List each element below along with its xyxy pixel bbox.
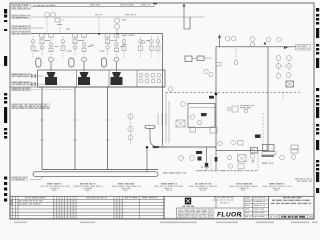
interlock box UZ-01: [286, 81, 294, 87]
control valve CV1: [45, 72, 57, 85]
title divider v252: [251, 196, 253, 218]
node tick top border: [153, 3, 157, 5]
pipe drop train 1: [41, 87, 43, 170]
signal drop x117: [116, 29, 118, 33]
instrument PI-26: [277, 37, 282, 42]
equipment title E4: [155, 183, 183, 190]
tag box: [216, 63, 221, 66]
instrument pump PI-42: [190, 156, 195, 161]
arrowhead x265: [264, 42, 267, 45]
signal stack x130: [130, 113, 132, 145]
pipe collector: [42, 169, 158, 171]
line label N7: [12, 87, 31, 90]
line label N4: [12, 31, 31, 34]
pipe lower header: [11, 86, 166, 88]
compressor enclosure box: [216, 47, 268, 151]
instrument pm2: [228, 164, 232, 168]
off-page connector box right: [296, 45, 311, 51]
equipment label box: [262, 152, 277, 157]
gate valve V6: [31, 82, 36, 86]
drum tag label: [163, 172, 168, 173]
pipe main header line D: [31, 33, 163, 35]
skid bay divider 2: [108, 71, 110, 88]
instrument PI-24: [250, 42, 254, 46]
skid bay divider 3: [136, 71, 138, 88]
actuator stem CV1: [49, 57, 54, 71]
instrument LI-11: [128, 114, 133, 119]
drop x206 with valve: [205, 147, 208, 170]
pipe between exchangers: [192, 57, 212, 60]
tag text train 3: [100, 40, 125, 52]
pipe label on line A: [34, 5, 36, 6]
aux box K-02: [190, 127, 196, 132]
title divider v176: [176, 208, 178, 219]
stacked boxes right: [291, 145, 298, 153]
junction nub x117: [116, 33, 118, 35]
exchanger box E-01: [185, 56, 192, 62]
instrument TI-32: [209, 72, 213, 76]
equipment note: [262, 163, 267, 164]
drop to drum x147: [146, 148, 148, 172]
instrument PI-01: [45, 12, 50, 17]
spec break box: [263, 145, 275, 152]
signal drop x263 dashed: [262, 113, 264, 145]
controller box PC-01: [55, 18, 60, 22]
spare bay instruments: [139, 73, 163, 83]
rev table header text: [25, 197, 158, 198]
pipe bottom run: [152, 146, 216, 148]
note label N9: [12, 177, 28, 180]
registration strip right: [316, 8, 319, 193]
pump cluster box: [238, 155, 247, 162]
instrument LI-12: [128, 126, 133, 131]
tag text train 2: [67, 40, 92, 52]
flange tick train 3: [106, 120, 110, 140]
arrow up x219: [218, 35, 221, 48]
line label N5: [12, 74, 31, 77]
valve dark x211: [209, 96, 214, 99]
drain risers: [158, 113, 166, 125]
equipment title E6: [230, 183, 258, 190]
pipe from label N7 dashed: [31, 89, 75, 91]
actuator stem CV3: [114, 57, 119, 71]
drop x216 lower: [215, 151, 218, 172]
dark valve x257: [255, 135, 261, 138]
signal drop x258: [257, 150, 259, 171]
note right REF: [295, 178, 312, 181]
line label N6: [12, 82, 31, 85]
drawing title text: [271, 197, 311, 204]
riser to off-sheet with arrow: [183, 4, 186, 18]
title divider v216: [215, 196, 217, 208]
instrument TI-01: [114, 18, 119, 23]
pipe line B: [31, 16, 204, 18]
strainer F2: [69, 58, 74, 67]
logo caption: [183, 206, 186, 207]
equipment title E5: [189, 183, 218, 190]
equipment title E3: [112, 183, 141, 190]
flow arrow bottom: [196, 151, 202, 154]
package unit boundary: [188, 104, 215, 128]
pump suction pot: [145, 126, 155, 129]
pipe line C: [31, 27, 44, 29]
line label N3: [12, 26, 31, 29]
skid boundary box: [38, 70, 166, 87]
flange tick train 2: [73, 120, 77, 140]
instrument LG-52: [280, 155, 285, 160]
tag text train 1: [34, 40, 59, 52]
equipment title E1: [41, 183, 70, 190]
title divider v268: [268, 196, 270, 218]
instrument pkg 2: [197, 120, 201, 124]
skid bay divider 1: [76, 71, 78, 88]
print stamp footnotes: [14, 222, 318, 224]
instrument stack PDI: [276, 56, 291, 79]
fan box K-01: [176, 120, 185, 127]
line label N2: [12, 15, 31, 18]
aux box K-03: [210, 127, 217, 133]
instrument FI-21: [168, 87, 173, 92]
valve dark bottom: [198, 157, 202, 161]
drain line from N9: [30, 176, 44, 179]
instrument TI-33: [181, 102, 186, 107]
valve manifold train 3: [105, 34, 119, 56]
pipe from label N5: [31, 75, 44, 77]
junction dot x216: [215, 93, 218, 96]
signature slashes: [54, 200, 122, 218]
instrument LG-51: [291, 155, 296, 160]
package top connection: [190, 107, 215, 109]
instrument pair x252: [250, 149, 254, 158]
pump suction drop: [150, 128, 166, 147]
pipe label row top mid: [90, 4, 150, 15]
strainer F3: [101, 58, 106, 67]
corporate text right: [213, 197, 234, 203]
instrument top pair A: [218, 141, 223, 146]
junction box x254: [251, 148, 258, 154]
instrument PI-23: [250, 37, 255, 42]
pipe label on main line: [122, 35, 127, 36]
instrument PI-21: [225, 36, 230, 41]
rev row 0 text: [11, 200, 43, 201]
valve manifold train 2: [73, 34, 87, 56]
loop seal: [184, 17, 190, 29]
instrument TI-02: [114, 24, 119, 29]
company logo mark: [185, 198, 191, 205]
aux instrument stacks: [31, 36, 160, 57]
aux box inside: [227, 106, 238, 112]
revision table grid: [10, 196, 164, 218]
small box x239: [238, 141, 244, 146]
tag text TI: [122, 19, 127, 20]
disclaimer paragraph: [178, 210, 215, 218]
junction nub x99: [98, 33, 100, 35]
strainer F1: [36, 58, 41, 67]
drain note text: [240, 105, 254, 113]
signal trunk dashed: [166, 92, 300, 94]
control valve CV2: [78, 72, 90, 85]
dark tag x156: [153, 146, 159, 148]
title divider v244: [243, 196, 245, 218]
actuator stem CV2: [82, 57, 87, 71]
wordmark period: [240, 215, 241, 216]
note dashes y170: [196, 170, 257, 171]
vent valve cross: [251, 159, 255, 163]
equipment title E2: [74, 183, 103, 190]
line label N1: [12, 4, 31, 9]
aux small box: [238, 164, 244, 169]
knockout drum ME-01: [33, 172, 158, 177]
signal drop x99: [98, 18, 100, 34]
dark inline valve pkg: [201, 113, 207, 116]
instrument pkg 1: [190, 115, 194, 119]
signal drop x236: [235, 48, 237, 60]
instrument PI-22: [231, 36, 236, 41]
note label N8: [12, 104, 50, 109]
pipe drop train 3: [107, 87, 109, 170]
instrument LI-13: [128, 135, 133, 140]
signal drop x283: [282, 93, 284, 102]
title bottom row: [269, 215, 314, 219]
pipe riser x169: [168, 101, 170, 143]
pipe top line A: [31, 6, 155, 8]
signal dash x211: [210, 155, 212, 170]
control valve CV3: [111, 72, 123, 85]
title divider h208: [177, 207, 245, 209]
flange tick train 1: [40, 120, 44, 140]
approval cells: [244, 196, 269, 217]
registration strip left: [4, 9, 7, 202]
scatter tags upper: [57, 24, 150, 46]
instrument top pair B: [231, 140, 236, 145]
gate valve V5: [31, 74, 36, 78]
instrument TI-31: [204, 69, 208, 73]
instrument x236: [234, 61, 238, 65]
pipe from label N6: [31, 83, 44, 85]
equipment title E7: [263, 183, 292, 190]
junction dot x147: [146, 146, 148, 148]
instrument pm1: [227, 155, 232, 160]
tag text under pump: [201, 167, 203, 168]
instrument PI-25: [266, 37, 271, 42]
instrument pump PI-41: [179, 156, 184, 161]
signal line cluster: [44, 17, 66, 33]
valve manifold train 1: [40, 34, 54, 56]
rev row 1 text: [11, 203, 41, 204]
instrument PI-02: [51, 12, 56, 17]
exchanger box E-02: [197, 56, 204, 61]
title block frame: [164, 196, 314, 218]
pipe riser x162: [162, 34, 164, 146]
flow arrow: [284, 46, 288, 49]
pipe riser x166: [165, 92, 167, 143]
pipe drop train 2: [74, 87, 76, 170]
svg-text:FLUOR: FLUOR: [217, 211, 242, 218]
pipe to off-sheet right: [268, 46, 296, 48]
